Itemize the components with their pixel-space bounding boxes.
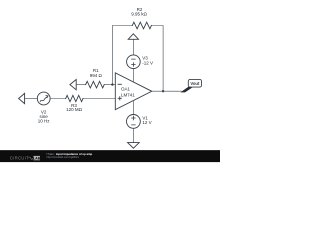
svg-text:9.95 kΩ: 9.95 kΩ [131, 12, 147, 17]
svg-text:http://circuitlab.com/cgk83cx: http://circuitlab.com/cgk83cx [47, 155, 80, 159]
svg-text:LAB: LAB [33, 156, 40, 160]
svg-text:Vout: Vout [190, 81, 200, 86]
svg-text:-12 V: -12 V [142, 61, 153, 66]
svg-text:LM741: LM741 [121, 93, 135, 98]
svg-text:994 Ω: 994 Ω [90, 73, 103, 78]
svg-text:CIRCUIT: CIRCUIT [10, 156, 29, 161]
svg-text:OA1: OA1 [121, 87, 131, 92]
svg-text:120 MΩ: 120 MΩ [66, 107, 83, 112]
svg-text:10 Hz: 10 Hz [38, 118, 51, 123]
svg-text:12 V: 12 V [142, 120, 151, 125]
